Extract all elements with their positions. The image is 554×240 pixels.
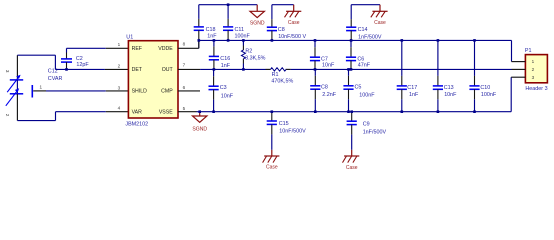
P1 pin numbers <box>532 59 535 80</box>
svg-text:SHILD: SHILD <box>132 89 148 95</box>
wire U1 pin 8 stub and jog up to VDD rail <box>178 40 199 48</box>
svg-text:Case: Case <box>288 20 300 26</box>
C12 pin number 2 <box>5 114 10 117</box>
U1 pin names right <box>158 46 173 115</box>
svg-text:100nF: 100nF <box>235 34 251 40</box>
svg-text:100nF: 100nF <box>359 93 375 99</box>
capacitor C8 (10nF/500V) <box>267 5 307 41</box>
svg-text:SGND: SGND <box>250 20 265 26</box>
svg-text:3: 3 <box>118 85 121 90</box>
svg-text:7: 7 <box>183 63 186 68</box>
svg-text:1nF: 1nF <box>207 34 217 40</box>
wire CVAR bottom to VAR jog <box>17 112 55 121</box>
capacitor C14 <box>346 5 382 41</box>
U1 pin 6 stub (CMP, unconnected) <box>178 90 200 92</box>
svg-text:1: 1 <box>118 42 121 47</box>
svg-text:C9: C9 <box>363 122 370 128</box>
svg-text:C17: C17 <box>407 85 417 91</box>
svg-text:R2: R2 <box>245 48 252 54</box>
svg-text:C2: C2 <box>76 56 83 62</box>
svg-text:C13: C13 <box>444 85 454 91</box>
svg-text:C16: C16 <box>220 56 230 62</box>
wire VAR net to U1 pin 4 <box>56 111 129 113</box>
svg-text:Case: Case <box>374 20 386 26</box>
svg-text:CMP: CMP <box>161 89 173 95</box>
svg-text:C8: C8 <box>278 27 285 33</box>
P1 pin stubs <box>511 62 525 78</box>
svg-text:REF: REF <box>132 46 142 52</box>
svg-text:3: 3 <box>5 70 10 73</box>
U1 pin numbers left <box>118 42 121 111</box>
svg-text:C10: C10 <box>480 85 490 91</box>
capacitor C13 <box>433 40 457 111</box>
svg-text:100nF: 100nF <box>481 92 497 98</box>
svg-text:4: 4 <box>118 106 121 111</box>
svg-text:C18: C18 <box>206 27 216 33</box>
svg-text:3.3K,5%: 3.3K,5% <box>245 56 266 62</box>
junction on SGND top rail <box>227 3 230 6</box>
svg-text:2.2nF: 2.2nF <box>322 92 336 98</box>
U1 pin numbers right <box>183 42 186 111</box>
svg-text:1nF/500V: 1nF/500V <box>358 35 382 41</box>
svg-text:10nF: 10nF <box>444 92 457 98</box>
svg-text:2: 2 <box>118 63 121 68</box>
wire CVAR top to DET jog <box>17 55 55 69</box>
capacitor C3 <box>209 69 234 111</box>
junctions on VDD rail <box>198 39 476 42</box>
chassis ground Case (top, C8) <box>285 5 302 26</box>
svg-text:10nF/500 V: 10nF/500 V <box>278 34 306 40</box>
wire VDD rail <box>199 40 512 61</box>
wire Case top link (C8) <box>272 4 294 6</box>
wire Case top link (C14) <box>351 4 380 6</box>
capacitor C17 <box>397 40 419 111</box>
ground SGND (top) <box>250 5 265 27</box>
junctions on OUT rail <box>213 68 353 71</box>
svg-text:C8: C8 <box>321 84 328 90</box>
svg-text:SGND: SGND <box>192 127 207 133</box>
svg-text:C11: C11 <box>235 27 245 33</box>
svg-text:DET: DET <box>132 67 143 73</box>
resistor R1 <box>271 68 294 85</box>
svg-text:1nF: 1nF <box>409 92 419 98</box>
capacitor C18 <box>194 5 218 49</box>
svg-text:C14: C14 <box>358 27 368 33</box>
chassis ground Case (bottom, C9) <box>343 150 360 171</box>
U1 pin names left <box>132 46 148 115</box>
wire VSS rail (pin 5 net) <box>178 77 511 112</box>
capacitor C6 <box>346 40 371 69</box>
svg-text:10nF: 10nF <box>221 93 234 99</box>
svg-text:P1: P1 <box>525 48 532 54</box>
capacitor C11 <box>223 5 250 41</box>
svg-text:C5: C5 <box>355 85 362 91</box>
capacitor C16 <box>209 40 231 69</box>
svg-text:VDDE: VDDE <box>158 46 173 52</box>
label C12 <box>48 68 58 74</box>
svg-text:470K,5%: 470K,5% <box>271 79 293 85</box>
wire DET net to U1 pin 2 <box>55 68 128 70</box>
svg-text:VSSE: VSSE <box>159 109 173 115</box>
wire OUT rail left (pin 7 net) <box>178 68 271 70</box>
ground SGND (bottom, pin5) <box>192 112 207 133</box>
capacitor C2 <box>61 48 89 69</box>
chassis ground Case (top, C14) <box>371 5 388 27</box>
svg-text:OUT: OUT <box>162 67 174 73</box>
op-amp U1 JBM2102 body <box>125 35 178 128</box>
svg-text:C15: C15 <box>279 121 289 127</box>
svg-text:2: 2 <box>532 67 535 72</box>
svg-text:5: 5 <box>183 106 186 111</box>
svg-text:10nF: 10nF <box>322 62 335 68</box>
variable capacitor C12 (CVAR) body <box>6 55 33 120</box>
resistor R2 <box>241 40 265 69</box>
svg-text:6: 6 <box>183 85 186 90</box>
junction C2/DET <box>65 68 68 71</box>
capacitor C5 <box>343 69 375 111</box>
svg-text:1nF/500V: 1nF/500V <box>363 129 387 135</box>
wire SGND top rail <box>199 4 257 6</box>
wire C2 to U1 pin 1 (REF) <box>67 47 129 49</box>
junctions on VSS rail <box>198 110 475 113</box>
svg-text:Header 3: Header 3 <box>525 86 547 92</box>
svg-text:8: 8 <box>183 42 186 47</box>
svg-text:JBM2102: JBM2102 <box>125 122 148 128</box>
svg-text:10nF/500V: 10nF/500V <box>279 128 306 134</box>
svg-text:VAR: VAR <box>132 109 143 115</box>
svg-text:Case: Case <box>266 165 278 171</box>
svg-text:C3: C3 <box>220 85 227 91</box>
C12 pin number 3 <box>5 70 10 73</box>
svg-text:1: 1 <box>532 59 535 64</box>
capacitor C9 <box>347 112 387 150</box>
capacitor C8b (2.2nF) <box>310 69 337 111</box>
svg-text:R1: R1 <box>272 72 279 78</box>
svg-text:12pF: 12pF <box>76 62 89 68</box>
label CVAR <box>48 76 63 82</box>
connector P1 Header 3 body <box>525 48 548 92</box>
capacitor C10 <box>469 40 496 111</box>
svg-text:47nF: 47nF <box>358 62 371 68</box>
C12 pin number 1 <box>40 85 43 90</box>
wire OUT rail right to header pin 2 <box>286 68 512 70</box>
svg-text:2: 2 <box>5 114 10 117</box>
svg-text:CVAR: CVAR <box>48 76 63 82</box>
capacitor C15 <box>267 112 306 150</box>
svg-text:U1: U1 <box>126 35 133 41</box>
wire CVAR pin1 to U1 pin 3 (SHLD) <box>33 90 128 92</box>
svg-text:1nF: 1nF <box>221 63 231 69</box>
svg-text:1: 1 <box>40 85 43 90</box>
capacitor C7 <box>310 40 335 69</box>
svg-text:3: 3 <box>532 75 535 80</box>
chassis ground Case (bottom, C15) <box>263 150 280 171</box>
svg-text:Case: Case <box>346 165 358 171</box>
